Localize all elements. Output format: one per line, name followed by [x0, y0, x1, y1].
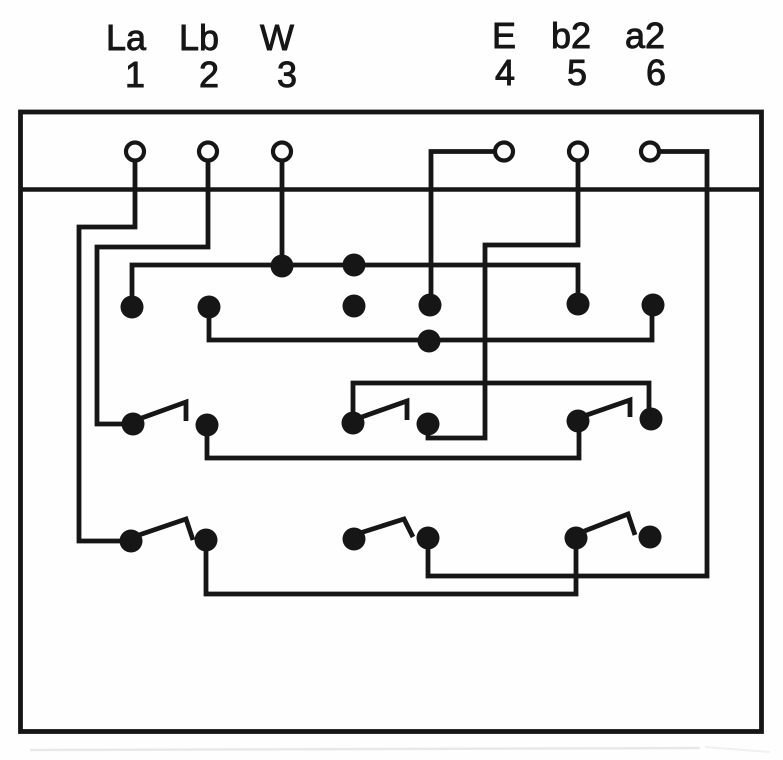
wire bus row 383: switch S2 left contact up, across, down to switch S3 right contact — [353, 383, 649, 421]
faint scan smudge below box — [30, 748, 700, 750]
switch S5 arm — [360, 519, 413, 537]
wire net La: terminal 1 down, left, down to switch S4 left contact — [79, 160, 135, 541]
node A1 (W contact dot) — [271, 255, 294, 278]
svg-text:2: 2 — [199, 54, 219, 95]
switch S5 left contact — [343, 528, 366, 551]
svg-text:La: La — [106, 17, 147, 58]
switch S3 left contact — [567, 410, 590, 433]
switch S2 right contact — [417, 413, 440, 436]
switch S4 arm — [139, 519, 193, 540]
terminal 5 (b2) open circle — [569, 143, 587, 161]
wire net E: terminal 4 left then down to node B4 — [431, 152, 494, 304]
svg-text:b2: b2 — [551, 15, 591, 56]
wire bus row 340: node B2 down, across, up to node B6 — [209, 305, 652, 340]
switch S1 left contact — [122, 413, 145, 436]
wire net a2: terminal 6 right, down, left, up to switch S5 right contact — [428, 152, 707, 577]
terminal 4 (E) open circle — [495, 143, 513, 161]
terminal 6 (a2) open circle — [641, 143, 659, 161]
wire bus row 265: node B1 up, across, down to node B5 — [132, 265, 578, 305]
faint scan smudge bottom right — [705, 747, 770, 752]
svg-text:3: 3 — [277, 54, 297, 95]
svg-text:4: 4 — [495, 52, 515, 93]
svg-text:a2: a2 — [625, 15, 665, 56]
wire net W: terminal 3 down to node A1 — [280, 160, 285, 263]
enclosure box outline — [21, 112, 762, 732]
node B1 (dot) — [121, 296, 144, 319]
svg-text:W: W — [260, 17, 294, 58]
node B4 (E contact dot) — [419, 294, 442, 317]
node A2 (bus 265 dot) — [343, 254, 366, 277]
wire bus row 458: switch S1 right contact down, across, up to switch S3 left contact — [207, 424, 579, 458]
node C1 (bus 340 dot) — [418, 330, 441, 353]
svg-text:1: 1 — [125, 54, 145, 95]
switch S4 left contact — [120, 530, 143, 553]
switch S1 right contact — [196, 414, 219, 437]
svg-text:Lb: Lb — [179, 17, 219, 58]
svg-text:5: 5 — [567, 52, 587, 93]
switch S6 arm — [582, 514, 635, 535]
terminal strip divider line — [21, 187, 762, 192]
node B2 (dot) — [198, 296, 221, 319]
switch S6 right contact — [639, 526, 662, 549]
svg-text:E: E — [492, 15, 516, 56]
wire net b2: terminal 5 down, left, down, right to switch S2 right contact — [428, 160, 578, 438]
node B6 (dot) — [642, 294, 665, 317]
switch S2 arm — [359, 401, 407, 420]
wire bus row 594: switch S4 right contact down, across, up to switch S6 left contact — [206, 540, 576, 594]
switch S4 right contact — [195, 529, 218, 552]
switch S3 arm — [584, 400, 630, 417]
switch S6 left contact — [565, 527, 588, 550]
switch S3 right contact — [640, 408, 663, 431]
node B3 (isolated contact dot) — [343, 295, 366, 318]
terminal 3 (W) open circle — [273, 143, 291, 161]
terminal 2 (Lb) open circle — [199, 143, 217, 161]
switch S1 arm — [139, 402, 186, 421]
node B5 (dot) — [567, 293, 590, 316]
wire net Lb: terminal 2 down, left, down to switch S1 left contact — [97, 160, 208, 424]
switch S5 right contact — [417, 527, 440, 550]
svg-text:6: 6 — [646, 52, 666, 93]
terminal 1 (La) open circle — [126, 143, 144, 161]
switch S2 left contact — [342, 412, 365, 435]
